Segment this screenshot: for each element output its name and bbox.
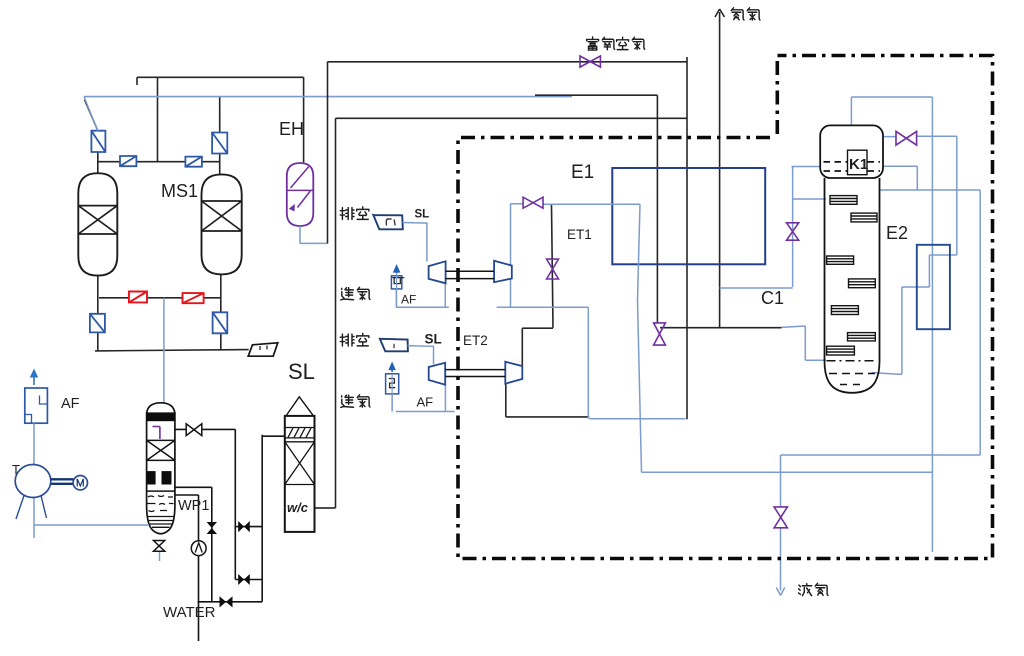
svg-text:SL: SL <box>288 359 315 384</box>
svg-text:w/c: w/c <box>287 500 309 515</box>
svg-text:AF: AF <box>401 293 416 307</box>
svg-text:C1: C1 <box>761 288 784 308</box>
svg-text:AF: AF <box>61 396 80 412</box>
svg-text:E1: E1 <box>571 162 594 183</box>
svg-text:K1: K1 <box>849 156 868 173</box>
svg-text:E2: E2 <box>886 223 908 243</box>
svg-text:AF: AF <box>417 395 434 410</box>
svg-text:T: T <box>12 462 20 477</box>
svg-text:ET1: ET1 <box>567 227 592 242</box>
svg-text:EH: EH <box>279 119 304 139</box>
svg-text:WATER: WATER <box>163 604 216 621</box>
svg-text:SL: SL <box>415 209 430 221</box>
svg-text:SL: SL <box>425 332 442 347</box>
svg-text:ET2: ET2 <box>463 333 488 348</box>
svg-text:WP1: WP1 <box>178 498 209 514</box>
